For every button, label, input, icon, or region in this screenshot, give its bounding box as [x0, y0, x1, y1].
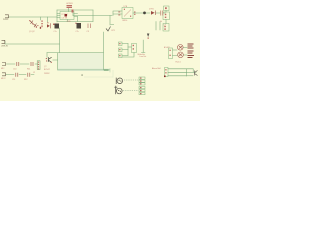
svg-text:C3: C3	[87, 31, 89, 33]
svg-text:A?xB?: A?xB?	[164, 46, 170, 49]
svg-text:2N392: 2N392	[44, 73, 50, 75]
svg-text:C11: C11	[12, 79, 15, 81]
svg-text:Q1 Q2: Q1 Q2	[29, 31, 35, 33]
svg-text:k: k	[42, 26, 43, 28]
svg-text:Horn1: Horn1	[176, 60, 181, 63]
svg-text:PWR1: PWR1	[3, 19, 8, 21]
svg-text:J2: J2	[33, 72, 35, 74]
svg-text:1k: 1k	[160, 21, 162, 23]
svg-text:C10: C10	[13, 69, 16, 71]
svg-text:BT1: BT1	[112, 30, 115, 32]
svg-text:GND: GND	[67, 21, 72, 23]
svg-text:Alarm Bell: Alarm Bell	[152, 67, 161, 70]
svg-text:CV TH: CV TH	[62, 17, 68, 19]
svg-text:LM7805: LM7805	[66, 3, 73, 5]
svg-text:MIC2: MIC2	[1, 78, 6, 80]
svg-text:D?5V: D?5V	[149, 8, 154, 10]
svg-text:0: 0	[42, 24, 43, 26]
svg-text:R11: R11	[27, 69, 30, 71]
svg-text:1: 1	[42, 21, 43, 23]
svg-text:R12: R12	[24, 79, 27, 81]
svg-text:Q?: Q?	[44, 66, 47, 68]
svg-text:LINE-IN: LINE-IN	[1, 45, 8, 47]
svg-text:LineOut: LineOut	[140, 55, 147, 58]
svg-text:BC547: BC547	[44, 69, 50, 71]
svg-text:BR10: BR10	[123, 20, 128, 22]
